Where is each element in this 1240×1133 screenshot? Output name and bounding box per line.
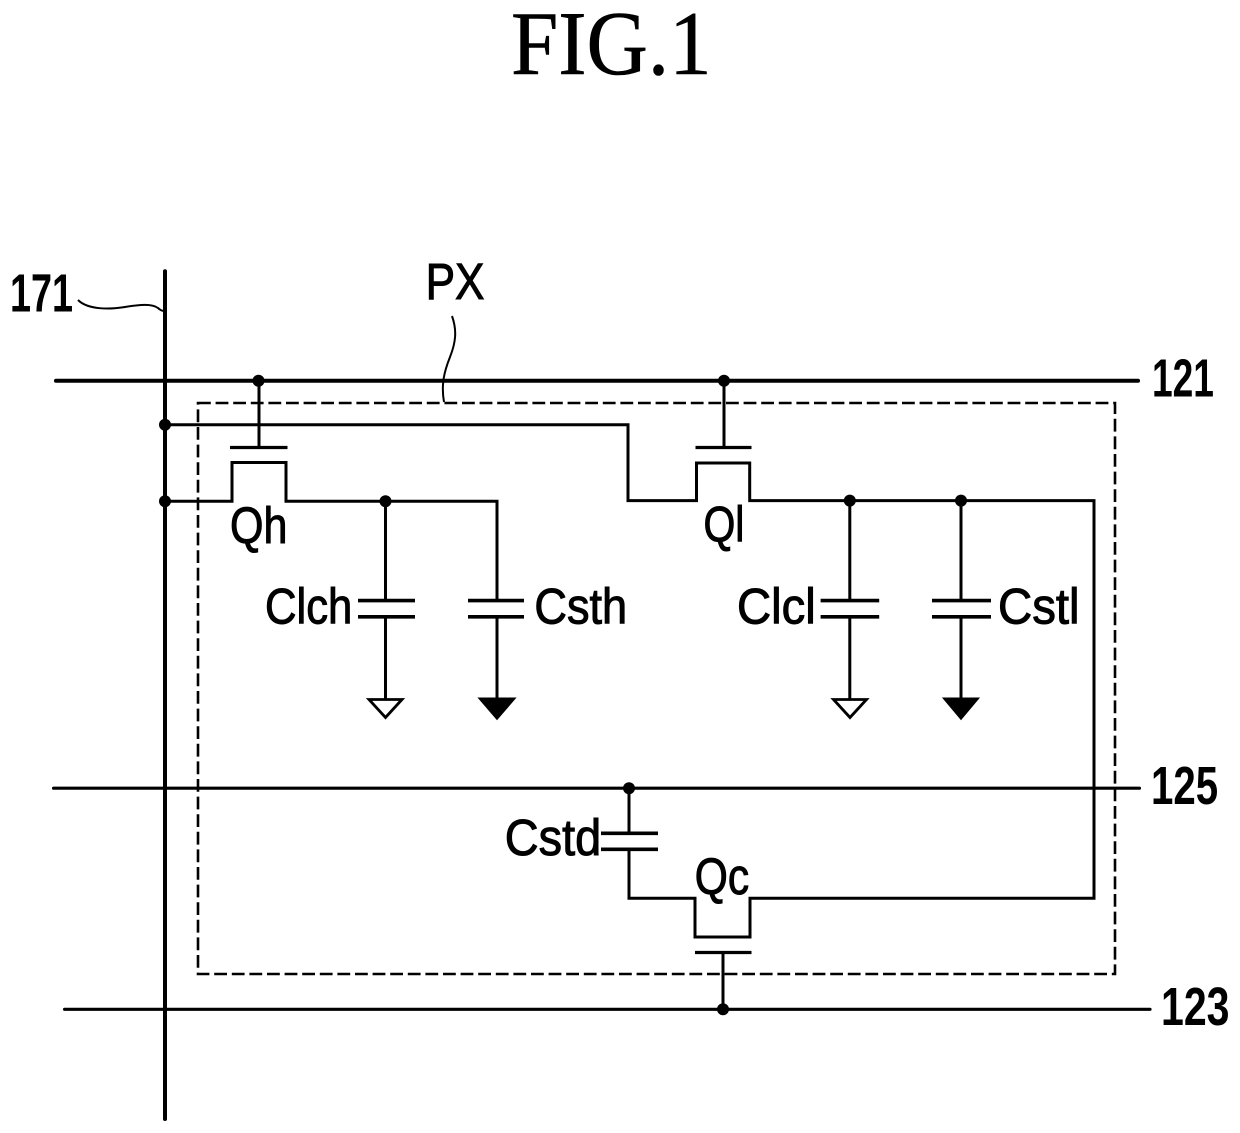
svg-text:121: 121 <box>1152 348 1214 409</box>
svg-text:PX: PX <box>426 254 485 311</box>
svg-text:123: 123 <box>1161 978 1229 1038</box>
svg-text:Cstd: Cstd <box>505 810 601 866</box>
svg-text:Clcl: Clcl <box>737 579 816 635</box>
svg-text:125: 125 <box>1151 756 1218 816</box>
svg-text:Ql: Ql <box>704 497 745 553</box>
svg-text:171: 171 <box>10 263 73 323</box>
svg-text:Csth: Csth <box>534 579 627 635</box>
svg-text:FIG.1: FIG.1 <box>511 0 712 94</box>
svg-text:Qh: Qh <box>230 497 287 554</box>
svg-text:Cstl: Cstl <box>998 579 1080 634</box>
svg-text:Qc: Qc <box>695 847 749 905</box>
svg-text:Clch: Clch <box>265 579 352 634</box>
